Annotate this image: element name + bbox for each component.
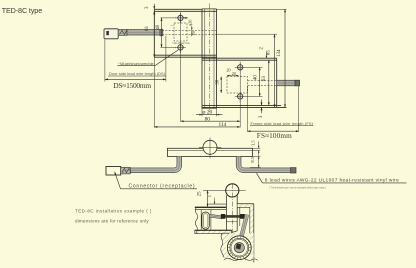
- svg-text:DS≈1500mm: DS≈1500mm: [113, 81, 151, 90]
- svg-text:dimensions are for reference o: dimensions are for reference only: [75, 218, 149, 223]
- example pivot tube: [225, 195, 227, 231]
- wire clamp through tube: [225, 215, 240, 218]
- screw hole frame plate top: [235, 62, 246, 73]
- svg-text:63: 63: [262, 76, 267, 82]
- frame block left broken edge: [221, 233, 224, 257]
- svg-text:* M4 panhd sunk screw hole: * M4 panhd sunk screw hole: [118, 62, 154, 66]
- svg-text:114: 114: [218, 122, 226, 128]
- hidden wire channel (door plate), dashed: [174, 23, 187, 41]
- dimension 1.5 plate thickness: [253, 147, 261, 149]
- crimp side view: [121, 167, 131, 174]
- door-side mounting plate: [154, 8, 202, 10]
- frame lower block hatched: [222, 233, 254, 260]
- frame-side bracket edge: [239, 208, 241, 227]
- frame-side lead wire band: [277, 80, 295, 86]
- wire band down to take-up wheel: [241, 215, 247, 238]
- door cross-section top wall: [195, 206, 227, 208]
- dimension 65: [274, 34, 276, 107]
- svg-text:20: 20: [232, 71, 236, 76]
- DS dimension extension lines: [104, 40, 106, 82]
- svg-text:134: 134: [277, 49, 282, 57]
- dimension 63 frame plate: [268, 60, 270, 106]
- connector bracket verticals: [200, 210, 202, 230]
- dimension 80: [180, 53, 182, 122]
- svg-text:30: 30: [215, 79, 220, 85]
- side view: mounting bar: [167, 148, 252, 156]
- dimension 40 extension lines: [161, 17, 177, 19]
- svg-text:* wire Plastic hole: * wire Plastic hole: [172, 41, 191, 45]
- frame right wall hatched: [250, 207, 254, 236]
- hidden door wire, dashed: [162, 30, 217, 32]
- svg-text:65: 65: [267, 50, 272, 56]
- svg-text:( The lead wire type may be ch: ( The lead wire type may be changed with…: [269, 185, 326, 189]
- FS dimension line: [247, 130, 299, 132]
- hidden frame wire, dashed: [248, 80, 277, 82]
- example pivot circle: [226, 184, 239, 197]
- svg-text:φ 20: φ 20: [202, 110, 212, 116]
- central pivot tube (top view): [201, 9, 203, 108]
- side view frame-side wire with bend: [239, 156, 291, 170]
- dimension 8.5 offset: [253, 155, 261, 157]
- side view door-side wire with bend: [131, 156, 180, 170]
- svg-text:61: 61: [145, 25, 150, 31]
- screw hole frame plate bottom: [235, 91, 246, 102]
- svg-text:25: 25: [198, 191, 203, 196]
- wire crimp section: [118, 29, 127, 35]
- side view frame wire end cap: [291, 168, 297, 173]
- dimension phi20 tube: [201, 108, 203, 116]
- svg-text:Frame side lead wire length (: Frame side lead wire length (FS): [251, 121, 314, 126]
- svg-text:1: 1: [207, 195, 212, 197]
- side view: pivot circle: [203, 140, 217, 154]
- svg-text:20: 20: [227, 67, 231, 72]
- door broken left edge (wavy): [195, 207, 197, 233]
- door-side lead wire band: [127, 30, 162, 35]
- screw hole door plate bottom: [175, 42, 186, 53]
- svg-text:8.5: 8.5: [250, 156, 255, 162]
- svg-text:40: 40: [156, 24, 161, 30]
- connector (door side, top view): [104, 29, 118, 39]
- tube centerline: [208, 4, 210, 113]
- svg-text:Door side lead wire length (DS: Door side lead wire length (DS): [109, 71, 166, 76]
- svg-text:φ20: φ20: [188, 20, 193, 26]
- svg-text:FS≈100mm: FS≈100mm: [257, 132, 292, 140]
- dimension 30 frame plate: [220, 77, 222, 94]
- dimension 40 hole spacing: [161, 18, 163, 48]
- wire band from connector to tube: [209, 214, 222, 219]
- DS dimension line: [105, 78, 166, 80]
- frame block bottom broken edge (wavy): [224, 258, 257, 260]
- svg-text:TED-8C type: TED-8C type: [2, 6, 43, 15]
- door bottom wall hatched: [195, 230, 232, 233]
- frame-side mounting plate: [202, 57, 277, 59]
- svg-text:TED-8C installation example (: TED-8C installation example ( ): [75, 208, 152, 213]
- connector (receptacle) side view: [106, 167, 121, 176]
- dimension 114: [153, 57, 155, 127]
- connector receptacle capsule (example): [202, 212, 209, 229]
- dimension 25: [207, 190, 209, 206]
- svg-text:1: 1: [170, 25, 174, 27]
- svg-text:80: 80: [205, 116, 211, 122]
- frame-side wire end cap: [295, 80, 300, 86]
- hidden wire channel (frame plate), dashed: [227, 77, 248, 94]
- example tube centerline: [231, 184, 233, 236]
- svg-text:8 lead wires AWG-22 UL1007 hea: 8 lead wires AWG-22 UL1007 heat-resistan…: [265, 177, 399, 183]
- frame header top wall hatched: [237, 204, 253, 208]
- dimension 3 (bottom-right plate edge offset): [261, 99, 263, 105]
- dimension 61 plate length: [153, 11, 155, 57]
- FS dimension extension lines: [246, 87, 248, 132]
- screw hole door plate top: [175, 13, 186, 24]
- svg-text:40: 40: [254, 75, 259, 81]
- wire bushing at plate entry: [160, 29, 163, 36]
- dimension 134: [284, 9, 286, 107]
- dimension 40 frame plate holes: [246, 66, 263, 68]
- label 8 lead wires with leader: [257, 173, 263, 183]
- dimension 3 (top-left plate edge offset): [153, 4, 155, 10]
- centerline through door plate holes: [180, 12, 182, 53]
- wire take-up wheel: [227, 236, 251, 260]
- centerline through frame plate holes: [239, 62, 241, 102]
- door-side bracket plate over door: [209, 203, 226, 205]
- svg-text:1.5: 1.5: [251, 140, 256, 146]
